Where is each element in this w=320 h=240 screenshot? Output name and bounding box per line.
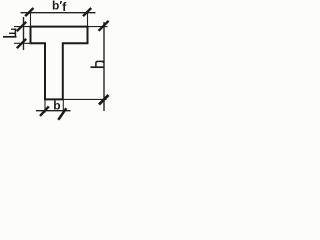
tick at left end of b bbox=[40, 106, 49, 116]
extension line left of b'f bbox=[30, 13, 32, 27]
extension line bottom of h'f bbox=[14, 42, 31, 44]
extension line top of h'f bbox=[14, 26, 31, 28]
tick at bottom of h bbox=[99, 95, 109, 105]
svg-text:b′f: b′f bbox=[52, 0, 67, 14]
tick at top of h bbox=[99, 21, 109, 31]
extension line right of b bbox=[62, 99, 64, 112]
extension line left of b bbox=[44, 99, 46, 112]
dimension line b (bottom) bbox=[36, 110, 71, 112]
label h'f (rotated, drawn as strokes) bbox=[3, 29, 17, 37]
extension line bottom of h bbox=[63, 98, 107, 100]
tick at top of h'f bbox=[17, 22, 26, 31]
tick at bottom of h'f bbox=[17, 39, 26, 48]
svg-text:b: b bbox=[53, 98, 60, 112]
dimension line b'f (top) bbox=[21, 12, 96, 14]
T-section outline bbox=[31, 27, 88, 100]
label h (rotated, drawn as strokes) bbox=[91, 61, 104, 67]
extension line right of b'f bbox=[87, 13, 89, 27]
tick at right end of b bbox=[58, 108, 66, 120]
dimension line h'f (left) bbox=[23, 17, 25, 50]
dimension line h (right) bbox=[103, 22, 105, 111]
tick at left end of b'f bbox=[25, 8, 33, 16]
tick at right end of b'f bbox=[83, 8, 91, 16]
extension line top of h bbox=[88, 26, 108, 28]
